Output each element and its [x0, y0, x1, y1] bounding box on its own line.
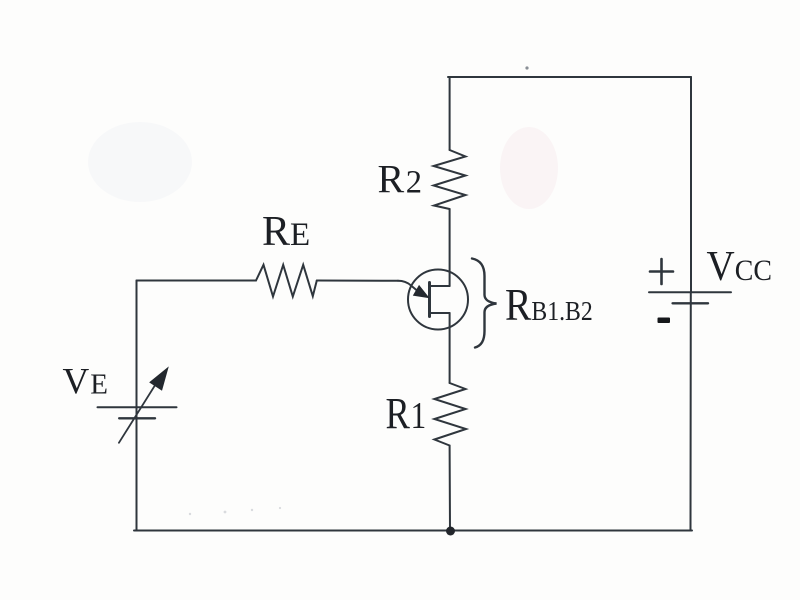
wire right lower (battery - to bottom) [690, 292, 692, 530]
source VE arrowhead [150, 368, 168, 390]
svg-text:VE: VE [63, 362, 108, 403]
transistor Q1 base-2 lead [430, 285, 450, 287]
svg-text:R1: R1 [386, 389, 427, 438]
wire RE right (to emitter) [317, 280, 398, 282]
wire middle top (top rail to R2) [449, 77, 451, 150]
wire right upper (to battery +) [690, 77, 692, 292]
battery VCC plate long [649, 291, 731, 293]
brace RB1.B2 [472, 259, 497, 348]
source VE plate long [98, 406, 177, 408]
resistor R1 [434, 383, 466, 446]
plus sign of VCC [650, 259, 673, 284]
resistor RE [256, 265, 317, 297]
wire left lower (VE - to bottom) [136, 407, 138, 530]
scan specks [189, 507, 281, 515]
transistor Q1 emitter arrow shaft [398, 281, 417, 291]
scan speck [525, 66, 528, 69]
resistor R2 [434, 150, 466, 209]
minus sign of VCC [658, 318, 671, 324]
source VE plate short [119, 417, 155, 419]
transistor Q1 base-1 lead [430, 312, 450, 314]
wire top [448, 76, 691, 78]
scan smudge blue-gray [88, 122, 192, 202]
wire transistor source to R1 [449, 313, 451, 383]
battery VCC plate short [673, 302, 708, 304]
scan smudge pink [500, 127, 558, 209]
transistor Q1 body (UJT circle) [408, 270, 468, 330]
wire bottom [134, 530, 692, 532]
transistor Q1 base bar [428, 283, 431, 317]
wire R1 to bottom [449, 446, 451, 531]
wire RE left [137, 280, 257, 282]
source VE variability arrow shaft [119, 381, 158, 443]
wire left upper (corner to VE +) [136, 281, 138, 408]
wire R2 to transistor drain [449, 209, 451, 286]
node junction dot [446, 527, 455, 536]
transistor Q1 emitter arrowhead [414, 286, 429, 298]
